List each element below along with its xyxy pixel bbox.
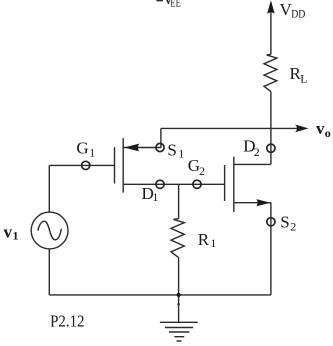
wire D1-G2 rail bbox=[123, 183, 224, 185]
transistor Q1 gate bar bbox=[114, 147, 116, 183]
svg-text:2: 2 bbox=[199, 164, 205, 178]
svg-text:S: S bbox=[280, 213, 289, 232]
terminal G1 bbox=[82, 161, 90, 169]
ground bar 4 bbox=[174, 336, 184, 338]
source v1 sine bbox=[38, 221, 62, 240]
svg-text:S: S bbox=[167, 141, 176, 160]
transistor Q1 channel bbox=[122, 138, 124, 193]
wire G1 lead bbox=[49, 164, 114, 166]
wire ground rail bbox=[49, 294, 271, 296]
arrowhead Q2 source bbox=[256, 199, 270, 206]
svg-text:1: 1 bbox=[210, 236, 216, 250]
wire R1 top lead bbox=[178, 184, 180, 218]
svg-text:1: 1 bbox=[13, 229, 19, 243]
svg-text:P2.12: P2.12 bbox=[50, 312, 84, 331]
wire Q2 source lead bbox=[234, 202, 271, 204]
wire Q2 drain lead bbox=[234, 163, 271, 165]
terminal S1 bbox=[156, 143, 164, 151]
wire v1 bottom lead bbox=[48, 249, 50, 295]
wire v1 top lead bbox=[48, 165, 50, 212]
svg-text:v: v bbox=[4, 223, 13, 242]
wire ground stub bbox=[178, 295, 180, 322]
terminal S2 bbox=[267, 218, 275, 226]
terminal D1 bbox=[156, 180, 164, 188]
wire output rail bbox=[161, 127, 298, 129]
arrowhead Q1 source bbox=[124, 144, 139, 152]
ground bar 3 bbox=[169, 331, 189, 333]
svg-text:L: L bbox=[300, 72, 307, 86]
label -VEE bbox=[156, 0, 163, 1]
ground bar 5 bbox=[177, 340, 182, 342]
svg-text:R: R bbox=[198, 230, 210, 249]
transistor Q2 gate bar bbox=[224, 165, 226, 201]
source v1 circle bbox=[31, 212, 68, 249]
wire RL bottom to output node bbox=[270, 92, 272, 129]
ground bar 1 bbox=[160, 321, 198, 323]
svg-text:1: 1 bbox=[152, 190, 158, 204]
terminal G2 bbox=[193, 180, 201, 188]
transistor Q2 channel bbox=[233, 157, 235, 212]
wire R1 bottom lead bbox=[178, 258, 180, 295]
svg-text:EE: EE bbox=[170, 0, 180, 9]
resistor RL bbox=[264, 54, 277, 91]
svg-text:1: 1 bbox=[89, 145, 95, 159]
junction dot small bbox=[177, 303, 179, 305]
svg-text:1: 1 bbox=[178, 147, 184, 161]
svg-text:2: 2 bbox=[254, 145, 260, 159]
svg-text:v: v bbox=[316, 119, 325, 138]
wire output node down to D2 terminal bbox=[270, 128, 272, 164]
arrowhead VDD bbox=[267, 0, 275, 14]
svg-text:2: 2 bbox=[290, 220, 296, 234]
wire VDD supply lead bbox=[270, 13, 272, 55]
junction dot ground rail bbox=[177, 293, 181, 297]
arrowhead vo bbox=[295, 125, 309, 133]
wire S1 lead bbox=[123, 147, 161, 149]
svg-text:o: o bbox=[325, 126, 331, 140]
ground bar 2 bbox=[165, 327, 193, 329]
terminal D2 bbox=[267, 144, 275, 152]
wire S1 riser bbox=[160, 128, 162, 148]
svg-text:DD: DD bbox=[291, 7, 305, 21]
wire S2 down lead bbox=[270, 203, 272, 295]
svg-text:G: G bbox=[76, 139, 88, 158]
resistor R1 bbox=[171, 219, 184, 258]
